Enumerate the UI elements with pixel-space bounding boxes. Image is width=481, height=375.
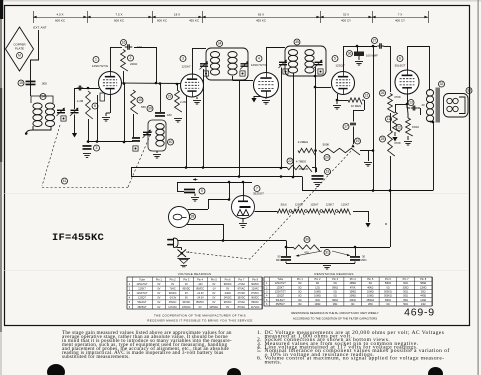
speaker frame — [444, 94, 469, 118]
label 12SQ7 — [335, 64, 345, 68]
svg-text:50L6GT: 50L6GT — [395, 64, 406, 68]
svg-text:500KΩ: 500KΩ — [384, 295, 392, 298]
svg-text:0V: 0V — [157, 306, 160, 309]
svg-text:Pin 1: Pin 1 — [156, 277, 162, 281]
svg-text:33: 33 — [467, 89, 471, 93]
svg-text:Pin 8: Pin 8 — [252, 277, 258, 281]
wire bus to filament string — [222, 240, 286, 242]
svg-text:-10V: -10V — [198, 283, 204, 286]
ground below C3 — [83, 154, 91, 158]
svg-text:12SK7: 12SK7 — [326, 203, 335, 207]
dimension arrowhead — [202, 16, 205, 19]
polarity arrow left — [296, 251, 323, 257]
label 150 — [412, 125, 419, 129]
wire R10 to C39 — [123, 82, 134, 142]
scan artifact black bar top-left — [0, 0, 3, 19]
wire grid y88 — [75, 88, 100, 109]
circled 22 — [287, 158, 293, 164]
svg-text:0V: 0V — [212, 297, 215, 300]
svg-text:8: 8 — [94, 104, 96, 108]
svg-text:7VAC: 7VAC — [170, 287, 176, 290]
circled 14 on coil top — [40, 94, 46, 100]
svg-text:31: 31 — [325, 251, 329, 255]
svg-text:ACCORDING TO THE CONDITION OF: ACCORDING TO THE CONDITION OF THE FILTER… — [293, 317, 377, 321]
svg-text:0V: 0V — [185, 283, 188, 286]
circled 20 — [324, 155, 330, 161]
wire V4 plate top — [343, 45, 358, 72]
dashed gang line bottom — [42, 187, 128, 189]
pilot lamp P1 — [169, 207, 190, 228]
svg-text:5: 5 — [334, 57, 336, 61]
label 50L6 — [281, 203, 287, 207]
svg-text:32 X: 32 X — [343, 13, 349, 17]
dashed line to volume control — [186, 150, 352, 259]
circled 34 above IF1 — [217, 41, 223, 47]
voltage readings table grid — [127, 277, 263, 309]
wire R26-R25 — [390, 113, 392, 130]
svg-text:117VAC: 117VAC — [251, 306, 260, 309]
svg-text:12SK7: 12SK7 — [341, 203, 350, 207]
label 12SA7 — [181, 65, 190, 69]
svg-text:10MΩ: 10MΩ — [367, 295, 374, 298]
circled 9 — [199, 188, 205, 194]
capacitor C3 AVC — [83, 145, 92, 150]
antenna coil L1 frame — [31, 96, 53, 103]
resistor R23 2.2M grid — [175, 83, 182, 112]
svg-text:0V: 0V — [212, 292, 215, 295]
circled 10 — [137, 97, 143, 103]
ground below V1 — [102, 118, 110, 122]
svg-text:30KΩ: 30KΩ — [385, 299, 391, 302]
svg-text:Tube: Tube — [277, 277, 283, 281]
dimension arrowhead — [372, 16, 375, 19]
label EXT ANT — [33, 26, 47, 30]
svg-text:40Ω: 40Ω — [315, 299, 320, 302]
wire C17 to wiper — [353, 127, 355, 145]
svg-text:15MΩ: 15MΩ — [349, 291, 356, 294]
svg-text:4: 4 — [258, 57, 260, 61]
wire V2 plate to IF1 — [192, 48, 206, 74]
capacitor C18 — [312, 175, 324, 180]
punch hole dot left — [47, 364, 65, 375]
svg-text:12SA7: 12SA7 — [181, 65, 190, 69]
svg-text:455 KC: 455 KC — [256, 19, 267, 23]
svg-text:100: 100 — [137, 45, 142, 49]
svg-text:39: 39 — [148, 107, 152, 111]
circled 30 — [304, 237, 310, 243]
svg-text:2.2M: 2.2M — [77, 99, 84, 103]
svg-text:580Ω: 580Ω — [420, 282, 426, 285]
resistor R26 470K — [388, 94, 395, 114]
svg-text:7.5 X: 7.5 X — [115, 13, 122, 17]
svg-text:Pin 6: Pin 6 — [385, 277, 391, 281]
svg-text:35Z5GT: 35Z5GT — [253, 192, 264, 196]
svg-text:18: 18 — [326, 170, 330, 174]
speaker magnet bracket — [459, 97, 465, 114]
circled 3 tube — [180, 56, 186, 62]
capacitor C9 line — [177, 182, 195, 193]
svg-text:89VAC: 89VAC — [251, 301, 259, 304]
label 20 — [422, 103, 426, 107]
filament resistor 12SQ7 — [292, 209, 304, 215]
label 2.2M — [77, 99, 84, 103]
svg-text:45VAC: 45VAC — [169, 301, 177, 304]
svg-text:Pin 2: Pin 2 — [170, 277, 176, 281]
svg-text:0Ω: 0Ω — [298, 282, 301, 285]
svg-text:34: 34 — [218, 42, 222, 46]
svg-text:30KΩ: 30KΩ — [332, 286, 338, 289]
boxed adjust dot — [61, 116, 66, 121]
svg-text:50Ω: 50Ω — [403, 295, 408, 298]
IF2 primary winding — [288, 50, 297, 74]
svg-text:500K: 500K — [323, 143, 330, 147]
circled 6 — [397, 56, 403, 62]
ground below R23 — [174, 119, 182, 123]
label 12SK7 — [326, 203, 335, 207]
resistor R10 56K — [131, 90, 138, 114]
B- arrow below R11 — [392, 132, 397, 142]
dimension arrowhead — [152, 16, 155, 19]
resistor R2 22K — [121, 50, 128, 84]
ground below C18 — [314, 183, 322, 187]
svg-text:7 X: 7 X — [398, 13, 403, 17]
svg-text:21: 21 — [365, 94, 369, 98]
svg-text:2.2MEG: 2.2MEG — [298, 140, 309, 144]
stage gain dimension line — [33, 17, 428, 19]
svg-text:10MΩ: 10MΩ — [314, 291, 321, 294]
svg-text:-34DC: -34DC — [224, 292, 231, 295]
ground below osc coil — [153, 155, 161, 159]
punch hole dot right — [428, 367, 443, 375]
wiper arrow volume — [351, 144, 354, 147]
svg-text:470K: 470K — [394, 141, 401, 145]
output transformer T1 primary — [426, 90, 433, 122]
svg-text:35Z5GT: 35Z5GT — [137, 306, 147, 309]
svg-text:50L6GT: 50L6GT — [137, 301, 147, 304]
wire IF1 sec to V3 grid — [233, 76, 254, 81]
svg-text:90VDC: 90VDC — [224, 301, 232, 304]
resistor R30 470 — [293, 245, 320, 252]
wire R25 down to B+ rail — [390, 156, 392, 191]
cooperation note — [147, 314, 252, 323]
resistance note — [291, 311, 378, 321]
circled 3 — [94, 145, 100, 151]
wire plate bus to V2 — [122, 47, 182, 84]
svg-text:400 CY: 400 CY — [395, 19, 405, 23]
svg-text:10: 10 — [138, 98, 142, 102]
IF1 secondary winding — [228, 52, 237, 76]
oscillator coil winding — [156, 124, 164, 147]
svg-text:Pin 7: Pin 7 — [403, 277, 409, 281]
wire osc bottom ground — [156, 151, 158, 153]
svg-text:27VDC: 27VDC — [237, 292, 245, 295]
ground below V2 — [193, 101, 201, 105]
ground right of volume — [364, 163, 372, 167]
svg-text:20: 20 — [422, 103, 426, 107]
footnote paragraph — [62, 331, 258, 359]
oscillator coil L2 can — [148, 120, 166, 151]
switch SW on-off — [177, 248, 187, 258]
label IF=455KC — [52, 232, 105, 244]
AVC arrow on bus — [193, 178, 198, 180]
svg-text:6: 6 — [399, 57, 401, 61]
svg-text:20KΩ: 20KΩ — [350, 299, 356, 302]
svg-text:28Ω: 28Ω — [368, 303, 373, 306]
label 12SA7 — [310, 203, 319, 207]
svg-text:Tube: Tube — [139, 277, 145, 281]
svg-text:0V: 0V — [157, 301, 160, 304]
AVC bus — [131, 166, 287, 176]
svg-text:0V: 0V — [185, 297, 188, 300]
svg-text:0Ω: 0Ω — [333, 282, 336, 285]
antenna coil primary winding — [33, 103, 42, 127]
svg-text:Pin 4: Pin 4 — [197, 277, 203, 281]
circled 13 — [408, 100, 414, 106]
svg-text:13: 13 — [409, 101, 413, 105]
filament resistor 12SK7 — [323, 209, 335, 215]
svg-text:12SK7: 12SK7 — [138, 287, 146, 290]
wire lamp to heater bus — [187, 182, 230, 242]
svg-text:3: 3 — [182, 57, 184, 61]
circled 17 — [343, 124, 349, 130]
svg-text:14: 14 — [41, 95, 45, 99]
punch hole dot middle — [227, 368, 241, 375]
svg-text:90VDC: 90VDC — [251, 283, 259, 286]
ground below R12 — [404, 136, 412, 145]
svg-text:16: 16 — [122, 41, 126, 45]
label 30 MFD — [360, 255, 366, 263]
svg-text:28: 28 — [191, 215, 195, 219]
B- arrow below V3 — [251, 98, 256, 103]
circled 8 — [92, 103, 98, 109]
label 500K — [323, 143, 330, 147]
circled 4 — [256, 56, 262, 62]
svg-text:24VDC: 24VDC — [224, 297, 232, 300]
AVC vertical x373 — [360, 45, 374, 191]
wire plug to bus — [178, 240, 222, 242]
antenna coil bottom lead — [25, 126, 51, 135]
IF2 trimmer right — [314, 60, 323, 75]
wire IF2 left down — [280, 68, 283, 170]
dimension tick — [428, 11, 430, 23]
voltage table text — [129, 277, 260, 308]
svg-text:Pin 8: Pin 8 — [420, 277, 426, 281]
svg-text:12SQ7: 12SQ7 — [276, 295, 284, 298]
svg-text:90VDC: 90VDC — [251, 297, 259, 300]
filament resistor 12SA7 — [308, 209, 320, 215]
numbered notes list — [254, 332, 464, 365]
svg-text:90VDC: 90VDC — [182, 301, 190, 304]
svg-text:9: 9 — [201, 189, 203, 193]
svg-text:+7VAC: +7VAC — [238, 283, 246, 286]
svg-text:0V: 0V — [185, 292, 188, 295]
wire V3 gnd — [265, 98, 267, 100]
svg-text:30: 30 — [305, 238, 309, 242]
svg-text:50Ω: 50Ω — [403, 291, 408, 294]
wire trimmer to B- arrow — [74, 115, 76, 134]
svg-text:90VDC: 90VDC — [224, 283, 232, 286]
svg-text:0V: 0V — [157, 287, 160, 290]
ground below V6 — [239, 219, 247, 228]
page number 469-9 — [404, 307, 435, 319]
svg-text:4.0 X: 4.0 X — [56, 13, 63, 17]
label 12SK7GT/G — [92, 64, 109, 68]
svg-text:0V: 0V — [157, 283, 160, 286]
IF2 trimmer left — [279, 60, 289, 75]
circled 7 — [254, 186, 260, 192]
dimension arrowhead — [368, 16, 371, 19]
svg-text:Pin 7: Pin 7 — [238, 277, 244, 281]
wire det to V4 — [314, 86, 331, 89]
capacitor C15 .005 — [26, 81, 48, 86]
svg-text:Pin 2: Pin 2 — [314, 277, 320, 281]
svg-text:140Ω: 140Ω — [420, 299, 426, 302]
svg-text:12SA7GT: 12SA7GT — [137, 283, 148, 286]
resistor R25 470K — [388, 130, 395, 156]
svg-text:EXT. ANT: EXT. ANT — [33, 26, 47, 30]
IF1 trimmer right — [240, 61, 249, 76]
svg-text:0Ω: 0Ω — [298, 291, 301, 294]
wire V5 plate loop — [407, 46, 430, 90]
resistor R8 2.2M — [86, 87, 93, 119]
svg-text:THE COOPERATION OF THE MANUFAC: THE COOPERATION OF THE MANUFACTURER OF T… — [154, 314, 246, 318]
filament resistor 12SK7 — [339, 209, 351, 215]
resistor R21 10MEG — [348, 98, 362, 105]
svg-text:0V: 0V — [226, 287, 229, 290]
IF2 secondary winding — [305, 50, 314, 74]
svg-text:10MΩ: 10MΩ — [349, 295, 356, 298]
label 22K — [130, 62, 138, 66]
svg-text:41: 41 — [63, 179, 67, 183]
IF1 trimmer left — [200, 61, 209, 76]
ground below V3 — [262, 101, 270, 105]
ground below diode — [333, 100, 341, 109]
svg-text:-1V: -1V — [212, 287, 216, 290]
svg-text:455 KC: 455 KC — [189, 19, 200, 23]
svg-text:Pin 5: Pin 5 — [367, 277, 373, 281]
wire det bus x315 — [315, 67, 317, 172]
svg-text:50KΩ: 50KΩ — [385, 282, 391, 285]
svg-text:2.2M: 2.2M — [180, 100, 187, 104]
svg-text:85VDC: 85VDC — [196, 301, 204, 304]
svg-text:0V: 0V — [226, 306, 229, 309]
svg-text:180: 180 — [167, 113, 172, 117]
svg-text:24Ω: 24Ω — [421, 303, 426, 306]
svg-text:0Ω: 0Ω — [386, 303, 389, 306]
junction dot — [123, 141, 126, 144]
capacitor C13 20MFD — [407, 104, 421, 115]
wire IF1 right down — [239, 80, 241, 177]
label 470 — [304, 251, 309, 255]
wire V2 down x186 — [186, 96, 188, 168]
dimension tick — [33, 11, 35, 23]
circled 23 — [167, 94, 173, 100]
svg-text:MFD: MFD — [360, 258, 366, 262]
label 50L6GT — [395, 64, 406, 68]
svg-text:Pin 3: Pin 3 — [332, 277, 338, 281]
svg-text:IF=455KC: IF=455KC — [52, 232, 105, 244]
svg-text:RECEIVER MAKES IT POSSIBLE TO: RECEIVER MAKES IT POSSIBLE TO BRING YOU … — [147, 319, 252, 323]
svg-text:440Ω: 440Ω — [420, 295, 426, 298]
wire V1 cathode — [106, 95, 111, 117]
resistance table text — [266, 277, 427, 306]
circled M on plate — [17, 53, 23, 59]
wire R22 to det — [312, 168, 317, 173]
label 12SK7GT/G — [251, 63, 268, 67]
svg-text:MFD: MFD — [276, 258, 282, 262]
svg-text:56K: 56K — [141, 105, 146, 109]
svg-text:85VDC: 85VDC — [196, 287, 204, 290]
svg-text:-24.3V: -24.3V — [197, 297, 205, 300]
capacitor C36 grid — [354, 46, 364, 60]
resistance readings table grid — [264, 277, 433, 306]
svg-text:90VDC: 90VDC — [169, 292, 177, 295]
svg-text:19: 19 — [356, 139, 360, 143]
svg-text:600 KC: 600 KC — [114, 19, 125, 23]
tube V1 12SK7GT/G — [99, 72, 122, 95]
wire V5 cathode — [406, 94, 409, 105]
circled 39 — [147, 106, 153, 112]
svg-text:0V: 0V — [199, 306, 202, 309]
label 4.7MEG — [296, 160, 306, 164]
wire V3 plate to IF2 — [266, 47, 285, 73]
svg-text:12SK7: 12SK7 — [276, 286, 284, 289]
label 12SK7 — [341, 203, 350, 207]
svg-text:40: 40 — [169, 140, 173, 144]
gain label 4.0X — [55, 13, 66, 23]
B- bus — [131, 175, 433, 192]
svg-text:600 KC: 600 KC — [55, 19, 66, 23]
svg-text:105VAC: 105VAC — [182, 306, 191, 309]
circled 19 — [355, 138, 361, 144]
filter capacitor C31b 30MFD — [350, 256, 360, 261]
dashed gang line left — [42, 125, 60, 186]
svg-text:-24.3V: -24.3V — [197, 292, 205, 295]
dimension arrowhead — [33, 16, 36, 19]
wire avc down — [87, 95, 133, 143]
svg-text:15: 15 — [19, 81, 23, 85]
svg-text:0Ω: 0Ω — [298, 303, 301, 306]
gain label 18X — [157, 13, 200, 23]
svg-text:28Ω: 28Ω — [333, 303, 338, 306]
label 56K — [141, 105, 146, 109]
copper plate antenna — [6, 27, 34, 71]
wire V6 heater right — [255, 211, 278, 213]
circled 21 — [364, 93, 370, 99]
wire V2 cathode gnd — [196, 97, 198, 99]
circled 2 — [128, 55, 134, 61]
svg-text:47VAC: 47VAC — [238, 301, 246, 304]
voice coil winding — [447, 98, 458, 111]
svg-text:36: 36 — [348, 52, 352, 56]
svg-text:0V: 0V — [157, 292, 160, 295]
svg-text:250KΩ: 250KΩ — [367, 299, 375, 302]
svg-text:0V: 0V — [171, 283, 174, 286]
svg-text:0V: 0V — [157, 297, 160, 300]
svg-text:100Ω: 100Ω — [314, 303, 320, 306]
svg-text:87VAC: 87VAC — [238, 287, 246, 290]
wire R21 to C17 — [353, 100, 365, 122]
svg-text:18 X: 18 X — [174, 13, 180, 17]
IF1 primary winding — [210, 52, 219, 76]
gain label 7X — [395, 13, 405, 23]
svg-text:30KΩ: 30KΩ — [332, 299, 338, 302]
trimmer capacitor C-ant — [57, 108, 66, 116]
svg-text:35VDC: 35VDC — [237, 297, 245, 300]
svg-text:12: 12 — [397, 126, 401, 130]
resistance table title — [314, 272, 353, 276]
svg-text:Pin 3: Pin 3 — [183, 277, 189, 281]
